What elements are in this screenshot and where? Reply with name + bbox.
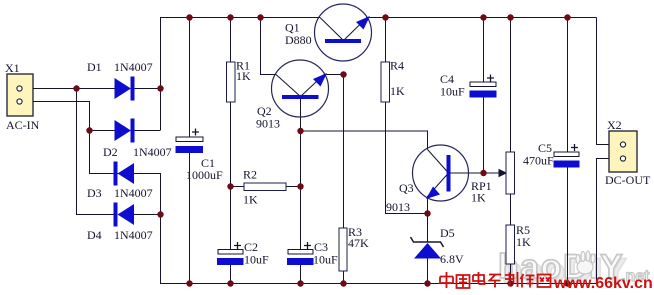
diode D2 bbox=[103, 119, 172, 160]
svg-text:D880: D880 bbox=[285, 33, 312, 47]
wire Q3 base to RP1 wiper node bbox=[450, 172, 484, 174]
wire RP1 top lead bbox=[510, 18, 512, 153]
svg-text:1K: 1K bbox=[236, 69, 251, 83]
wire top rail output segment bbox=[366, 17, 597, 19]
watermark haoDIY logo bbox=[498, 248, 650, 290]
wire D4 row bbox=[133, 214, 161, 216]
wire X1 pin2 to D2 bbox=[23, 102, 115, 131]
svg-text:1K: 1K bbox=[516, 235, 531, 249]
svg-text:X1: X1 bbox=[5, 61, 20, 75]
wire C3 bottom lead bbox=[300, 264, 302, 284]
svg-text:1K: 1K bbox=[390, 84, 405, 98]
wire Q2 base lead down bbox=[300, 99, 302, 131]
wire R2 left lead bbox=[231, 186, 245, 188]
wire D3 anode to minus spine bbox=[133, 173, 161, 175]
svg-text:1N4007: 1N4007 bbox=[114, 228, 153, 242]
wire Q2 base node to R2 right node bbox=[300, 131, 302, 250]
wire bottom rail bbox=[160, 283, 597, 285]
svg-text:X2: X2 bbox=[607, 118, 622, 132]
wire R3 bottom lead bbox=[343, 271, 345, 284]
svg-text:1000uF: 1000uF bbox=[186, 168, 223, 182]
connector X1 bbox=[5, 61, 40, 132]
wire C5 bottom lead bbox=[567, 167, 569, 284]
svg-text:9013: 9013 bbox=[386, 200, 410, 214]
wire C1 leads bbox=[189, 18, 191, 284]
wire X2 negative lead bbox=[597, 159, 621, 284]
wire Q2 collector from input rail bbox=[261, 18, 277, 75]
wire R2 right lead bbox=[286, 186, 301, 188]
svg-text:1N4007: 1N4007 bbox=[133, 145, 172, 159]
capacitor C1 bbox=[176, 129, 224, 183]
svg-text:1N4007: 1N4007 bbox=[114, 60, 153, 74]
wire C4 top lead bbox=[483, 18, 485, 83]
svg-text:AC-IN: AC-IN bbox=[6, 118, 40, 132]
wire X1 pin1 branch down to D4 bbox=[77, 89, 115, 215]
capacitor C4 bbox=[440, 72, 497, 99]
resistor R4 bbox=[381, 59, 405, 103]
svg-text:Q3: Q3 bbox=[399, 181, 414, 195]
svg-text:470uF: 470uF bbox=[523, 154, 554, 168]
resistor R2 bbox=[243, 168, 286, 207]
wire C5 top lead bbox=[567, 18, 569, 153]
svg-text:1K: 1K bbox=[243, 193, 258, 207]
svg-text:D5: D5 bbox=[440, 226, 455, 240]
svg-text:R4: R4 bbox=[390, 59, 404, 73]
wire D5 anode to bottom rail bbox=[427, 259, 429, 284]
wire top rail input segment bbox=[161, 18, 321, 131]
svg-text:47K: 47K bbox=[348, 236, 369, 250]
svg-text:D4: D4 bbox=[87, 228, 102, 242]
capacitor C5 bbox=[523, 141, 580, 168]
svg-text:10uF: 10uF bbox=[313, 253, 338, 267]
wire C4 bottom to wiper node bbox=[483, 97, 485, 173]
wire Q3 emitter down to node bbox=[427, 196, 429, 214]
resistor R1 bbox=[227, 59, 252, 103]
wire feedback Q3 collector to Q2 base bbox=[301, 131, 428, 150]
svg-text:D3: D3 bbox=[87, 186, 102, 200]
watermark red chinese text bbox=[440, 272, 551, 288]
wire R1 bottom to R2 left node bbox=[230, 102, 232, 187]
svg-text:10uF: 10uF bbox=[440, 85, 465, 99]
diode D3 bbox=[87, 162, 153, 201]
wire R5 bottom lead bbox=[510, 264, 512, 284]
wire X2 positive lead bbox=[597, 18, 621, 145]
svg-text:D1: D1 bbox=[87, 60, 102, 74]
diode D4 bbox=[87, 203, 153, 243]
resistor R5 bbox=[506, 223, 531, 264]
wire R1 top lead bbox=[230, 18, 232, 63]
svg-text:1K: 1K bbox=[471, 191, 486, 205]
transistor Q1 bbox=[285, 4, 372, 61]
svg-text:9013: 9013 bbox=[256, 117, 280, 131]
wire Q1 base node down to R3 bbox=[343, 75, 345, 229]
wire R4 top lead bbox=[385, 18, 387, 63]
connector X2 bbox=[605, 118, 651, 187]
wire R4 bottom to Q3 emitter node bbox=[386, 102, 428, 214]
capacitor C3 bbox=[287, 240, 338, 267]
wire C2 bottom lead bbox=[230, 264, 232, 284]
resistor R3 bbox=[339, 225, 369, 271]
transistor Q2 bbox=[256, 60, 329, 131]
svg-text:D2: D2 bbox=[103, 145, 118, 159]
capacitor C2 bbox=[217, 240, 269, 267]
wire Q3 emitter node to D5 bbox=[427, 214, 429, 242]
svg-text:DC-OUT: DC-OUT bbox=[605, 173, 651, 187]
wire X1 pin2 branch down to D3 bbox=[90, 131, 115, 174]
wire R2 left node to C2 bbox=[230, 187, 232, 251]
svg-text:R2: R2 bbox=[243, 168, 257, 182]
potentiometer RP1 bbox=[471, 152, 515, 205]
wire Q2 emitter to Q1 base node bbox=[324, 74, 344, 76]
wire RP1 wiper arrow bbox=[484, 170, 507, 177]
svg-text:6.8V: 6.8V bbox=[440, 252, 464, 266]
wire RP1 bottom to R5 bbox=[510, 194, 512, 225]
zener diode D5 bbox=[411, 226, 465, 266]
svg-text:10uF: 10uF bbox=[244, 253, 269, 267]
wire X1 pin1 to D1 bbox=[23, 88, 115, 90]
wire bridge negative spine bbox=[90, 174, 161, 284]
transistor Q3 bbox=[386, 145, 469, 214]
svg-text:www.66kv.cn: www.66kv.cn bbox=[553, 275, 653, 292]
wire D1 cathode to plus spine bbox=[134, 88, 161, 90]
svg-text:1N4007: 1N4007 bbox=[114, 186, 153, 200]
wire D2 cathode to plus spine bbox=[134, 130, 161, 132]
watermark hand glyph bbox=[576, 251, 595, 274]
diode D1 bbox=[87, 60, 153, 101]
